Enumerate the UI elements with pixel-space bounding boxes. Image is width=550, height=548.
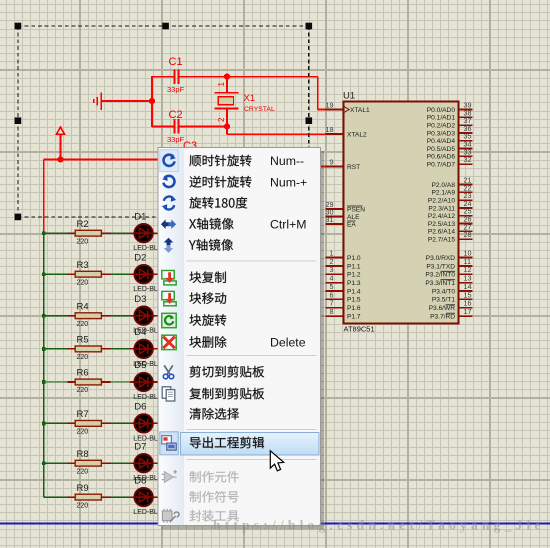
capacitor C2 [174,119,178,133]
svg-text:P1.6: P1.6 [347,305,361,312]
svg-text:28: 28 [464,230,472,239]
selection dashed box [18,26,309,217]
svg-text:220: 220 [77,279,89,286]
svg-text:P3.7/RD: P3.7/RD [430,314,455,321]
wire bottom blue bus line [0,522,550,524]
ground [94,93,102,110]
svg-text:Num-+: Num-+ [270,175,307,189]
resistor R8 row wires [42,461,159,465]
svg-text:X1: X1 [244,93,256,104]
LED D6 [134,414,152,432]
selection handle [15,23,22,30]
pin 5 P1.4 stub [326,290,344,292]
svg-text:31: 31 [326,215,334,224]
svg-text:P0.1/AD1: P0.1/AD1 [427,115,456,122]
svg-text:P1.0: P1.0 [347,255,361,262]
menu item X mirror [189,218,233,230]
LED D7 [134,454,152,472]
icon rotate-180 [162,196,176,210]
menu separator [187,429,317,431]
svg-text:220: 220 [77,429,89,436]
LED D2 [134,265,152,283]
menu item rotate 180 [189,197,247,209]
svg-text:P1.5: P1.5 [347,297,361,304]
LED D5 [134,373,152,391]
wire C1 row [152,76,318,78]
resistor R5 row wires [42,347,159,351]
icon frame item13 [160,432,178,455]
node junction power [57,156,63,162]
menu separator [187,458,317,460]
icon package-tools [162,509,179,523]
icon block-copy [162,271,176,285]
LED D1 [134,224,152,242]
menu item clear selection [189,408,239,420]
svg-text:P1.3: P1.3 [347,280,361,287]
overline WR [446,304,456,306]
svg-text:LED-BL: LED-BL [133,286,158,293]
overline INT1 [441,279,456,281]
svg-text:220: 220 [77,354,89,361]
svg-text:R5: R5 [77,335,89,346]
menu item packaging tools (disabled) [189,510,238,522]
icon rotate-ccw [162,175,174,187]
svg-text:P1.1: P1.1 [347,263,361,270]
overline PSEN [347,205,363,207]
selection handle [162,23,169,30]
selection handle [15,214,22,221]
pin 7 P1.6 stub [326,307,344,309]
svg-text:1: 1 [217,81,226,86]
pin 29 PSEN stub [326,208,344,210]
svg-text:P0.7/AD7: P0.7/AD7 [427,162,456,169]
pin 8 P1.7 stub [326,315,344,317]
pin 6 P1.5 stub [326,298,344,300]
wire C2 row [152,125,227,127]
menu item rotate counterclockwise [190,176,252,188]
pin 30 ALE stub [326,216,344,218]
wire crystal top [226,77,228,93]
svg-text:EA: EA [347,221,356,228]
pin 31 EA stub [326,223,344,225]
svg-text:P0.4/AD4: P0.4/AD4 [427,138,456,145]
resistor R9 row wires [44,496,159,498]
svg-text:220: 220 [77,387,89,394]
svg-text:D2: D2 [134,252,146,263]
overline RD [446,312,455,314]
resistor R3 row wires [42,272,159,276]
svg-text:ALE: ALE [347,214,360,221]
svg-text:P1.7: P1.7 [347,314,361,321]
svg-text:220: 220 [77,238,89,245]
icon rotate-cw [164,154,176,166]
svg-text:C1: C1 [169,56,183,68]
resistor R7 [75,421,101,427]
svg-text:P1.2: P1.2 [347,272,361,279]
menu separator [187,260,317,262]
menu item export project clip [190,437,264,449]
resistor R7 row wires [42,422,159,426]
wire top rail [44,158,159,160]
resistor R5 [75,346,101,352]
svg-text:LED-BL: LED-BL [133,245,158,252]
menu item block rotate [189,314,226,326]
menu item make component (disabled) [190,471,239,483]
svg-text:XTAL1: XTAL1 [350,107,370,114]
pin 3 P1.2 stub [326,273,344,275]
menu item block move [189,292,226,304]
svg-text:P3.2/INT0: P3.2/INT0 [425,272,455,279]
LED D4 [134,340,152,358]
wire XTAL1 elbow [318,77,326,110]
menu item make symbol (disabled) [190,491,239,503]
svg-text:R2: R2 [77,219,89,230]
svg-text:P1.4: P1.4 [347,288,361,295]
resistor R4 row wires [42,314,159,318]
svg-text:P3.3/INT1: P3.3/INT1 [425,280,455,287]
svg-text:P2.7/A15: P2.7/A15 [428,237,455,244]
svg-text:P3.4/T0: P3.4/T0 [432,288,455,295]
LED D8 [134,488,152,506]
svg-text:P2.6/A14: P2.6/A14 [428,229,455,236]
svg-text:U1: U1 [343,91,355,102]
mouse cursor [270,451,283,471]
svg-text:D8: D8 [134,475,146,486]
svg-text:XTAL2: XTAL2 [347,131,367,138]
svg-text:D7: D7 [134,441,146,452]
wire crystal bottom [227,109,326,135]
resistor R4 [75,313,101,319]
svg-text:P3.0/RXD: P3.0/RXD [426,255,456,262]
svg-text:9: 9 [330,158,334,167]
context menu popup [162,151,325,530]
svg-text:8: 8 [330,307,334,316]
node junction C1-crystal [224,74,230,80]
svg-text:P2.1/A9: P2.1/A9 [432,190,456,197]
svg-text:LED-BL: LED-BL [133,394,158,401]
svg-text:19: 19 [326,101,334,110]
overline INT0 [441,270,456,272]
icon mirror-y [164,238,174,253]
microcontroller U1 AT89C51 [344,102,459,324]
resistor R8 [75,460,101,466]
overline EA [347,220,356,222]
svg-text:P0.0/AD0: P0.0/AD0 [427,107,456,114]
wire green vertical rail [43,233,45,497]
menu item block copy [189,271,225,283]
svg-text:LED-BL: LED-BL [133,509,158,516]
wire gnd-to-node [101,100,152,102]
svg-text:P0.5/AD5: P0.5/AD5 [427,146,456,153]
icon mirror-x [161,219,176,229]
node junction gnd [149,98,155,104]
svg-text:P3.6/WR: P3.6/WR [429,305,456,312]
icon make-component [162,470,177,482]
selection handle [15,117,22,124]
pin 4 P1.3 stub [326,282,344,284]
svg-text:RST: RST [347,164,360,171]
menu item copy to clipboard [189,388,264,400]
node junction C2-crystal [224,123,230,129]
selection handle [306,117,313,124]
pin 18 XTAL2 stub [326,133,344,135]
pin stubs right side [459,109,473,111]
svg-text:D3: D3 [134,294,146,305]
icon copy-pages [162,387,175,401]
menu item block delete [189,336,226,348]
wire RST stub [320,166,327,168]
svg-text:C2: C2 [169,109,183,121]
svg-text:220: 220 [77,321,89,328]
svg-text:D4: D4 [134,327,146,338]
svg-text:P3.5/T1: P3.5/T1 [432,297,455,304]
icon export-clip [162,436,176,450]
icon scissors [163,365,173,379]
resistor R2 row wires [42,231,159,235]
menu item rotate clockwise [189,155,251,167]
resistor R2 [75,230,101,236]
capacitor C1 [174,69,178,83]
svg-text:220: 220 [77,502,89,509]
svg-text:Delete: Delete [270,336,306,350]
wire left rail [43,159,45,233]
menu separator [187,355,317,357]
svg-text:P0.3/AD3: P0.3/AD3 [427,130,456,137]
selection handle [306,23,313,30]
svg-text:AT89C51: AT89C51 [344,325,375,334]
svg-text:32: 32 [464,155,472,164]
svg-text:R6: R6 [77,368,89,379]
svg-text:Num--: Num-- [270,154,304,168]
svg-text:R3: R3 [77,260,89,271]
icon block-delete [162,335,176,349]
svg-text:https://blog.csdn.net/Taoyang_: https://blog.csdn.net/Taoyang_Jie [213,518,545,533]
svg-text:P0.6/AD6: P0.6/AD6 [427,154,456,161]
svg-text:2: 2 [217,117,226,122]
pin 19 XTAL1 stub [326,109,344,111]
resistor R9 [75,494,101,500]
svg-text:18: 18 [326,125,334,134]
svg-text:P0.2/AD2: P0.2/AD2 [427,123,456,130]
svg-text:D6: D6 [134,402,146,413]
menu highlight row [181,433,319,455]
resistor R3 [75,271,101,277]
icon block-move [162,291,176,305]
svg-text:P2.4/A12: P2.4/A12 [428,213,455,220]
pin 1 P1.0 stub [326,257,344,259]
svg-text:P2.3/A11: P2.3/A11 [428,205,455,212]
svg-text:PSEN: PSEN [347,206,365,213]
wire left vertical C1-C2 [151,76,153,127]
crystal X1 [214,93,238,109]
svg-text:Ctrl+M: Ctrl+M [270,217,307,231]
svg-text:220: 220 [77,468,89,475]
svg-text:P2.2/A10: P2.2/A10 [428,198,455,205]
power terminal arrow [56,127,64,134]
pin 9 RST stub [326,166,344,168]
icon frame item1 [160,150,178,172]
svg-text:P2.0/A8: P2.0/A8 [432,182,456,189]
icon block-rotate [162,313,176,327]
svg-text:R4: R4 [77,301,89,312]
svg-text:CRYSTAL: CRYSTAL [244,106,275,113]
svg-text:R9: R9 [77,483,89,494]
svg-text:R7: R7 [77,409,89,420]
menu item Y mirror [189,239,233,251]
XTAL1 clock marker [344,107,349,113]
menu item cut to clipboard [190,366,265,378]
pin 2 P1.1 stub [326,265,344,267]
svg-text:R8: R8 [77,449,89,460]
svg-text:33pF: 33pF [167,85,185,94]
svg-text:17: 17 [464,307,472,316]
svg-text:D5: D5 [134,360,146,371]
resistor R6 [75,379,101,385]
svg-text:33pF: 33pF [167,135,185,144]
resistor R6 row wires [42,380,159,384]
LED D3 [134,307,152,325]
svg-text:P3.1/TXD: P3.1/TXD [426,263,455,270]
svg-text:P2.5/A13: P2.5/A13 [428,221,455,228]
